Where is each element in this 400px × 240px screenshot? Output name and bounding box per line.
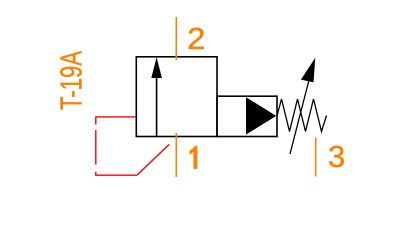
adjustment arrow shaft <box>290 80 309 154</box>
pilot box (right) <box>217 96 277 136</box>
pilot line (dashed) top+left+bottom <box>96 117 137 175</box>
port 1 line <box>175 133 177 177</box>
pilot line diagonal to port 1 <box>137 138 176 176</box>
valve body box <box>136 57 217 137</box>
adjustment arrowhead <box>301 58 315 83</box>
flow arrow stem <box>156 76 158 137</box>
port 1 label <box>190 146 198 169</box>
port 2 line <box>175 17 177 60</box>
spring <box>277 99 327 132</box>
check poppet triangle <box>246 97 276 134</box>
svg-text:2: 2 <box>187 21 206 56</box>
flow arrowhead <box>151 57 162 78</box>
svg-text:T-19A: T-19A <box>54 51 89 110</box>
svg-text:3: 3 <box>328 139 345 174</box>
port 3 line <box>315 138 317 177</box>
